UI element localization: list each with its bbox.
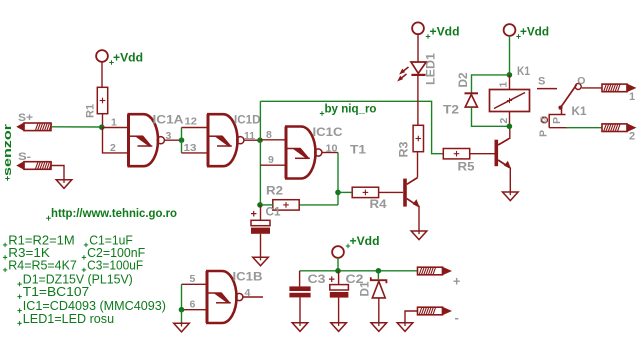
supply +Vdd (bottom rail) [332,234,379,258]
ground (plug -) [397,322,413,332]
label T1 [350,145,367,157]
wire T2 emitter [509,168,511,193]
svg-text:IC1C: IC1C [313,127,343,139]
svg-text:8: 8 [266,129,272,141]
svg-text:10: 10 [326,142,338,154]
wire rail to C3 [299,271,301,287]
svg-text:R5: R5 [458,162,476,174]
capacitor C1 [251,205,271,258]
wire node A to IC1A pin1 [103,127,129,129]
resistor R5 [443,149,475,174]
ground (D1) [371,322,387,332]
svg-text:@: @ [538,116,548,124]
wire IC1B pin4 [243,296,263,298]
capacitor C2 [329,271,364,323]
relay K1 contact P [538,106,588,137]
wire IC1B to ground [181,310,183,324]
relay K1 coil [490,66,531,126]
node C junction [257,137,263,143]
svg-text:6: 6 [190,298,196,310]
svg-text:+Vdd: +Vdd [113,51,143,65]
wire IC1D pin13 [182,152,209,154]
label url [46,208,177,220]
transistor T1 [403,178,419,207]
resistor R2 [266,186,299,211]
node J junction [376,268,382,274]
label component values [3,233,166,325]
svg-text:R1: R1 [85,104,97,118]
svg-text:S-: S- [18,151,31,163]
node D junction [335,190,341,196]
diode D2 [458,73,478,108]
label by niq_ro [320,102,377,116]
nand gate IC1A [110,114,197,166]
svg-text:P: P [538,130,550,137]
supply +Vdd (K1 branch) [504,24,549,39]
wire +Vdd drop [337,258,339,271]
resistor R3 [399,125,424,157]
svg-text:R2: R2 [266,186,283,198]
wire D2 to node G [472,107,510,126]
svg-text:2: 2 [498,118,510,124]
svg-text:LED1: LED1 [426,52,438,85]
svg-text:S: S [538,76,545,88]
node G junction [507,124,513,130]
svg-text:T1: T1 [350,145,367,157]
wire IC1B tie [181,284,183,309]
wire plug - to ground [405,311,418,323]
node F junction [507,72,513,78]
svg-text:12: 12 [185,115,198,127]
ground (C1) [253,256,269,266]
wire O to plug 1 [582,87,602,89]
svg-text:C3: C3 [308,274,326,286]
wire R1 to node A [102,114,104,128]
wire S- to ground [52,166,65,180]
svg-text:O: O [577,75,585,87]
svg-text:+: + [251,209,257,221]
wire IC1C pin8 [260,129,286,141]
wire IC1B pin5 [182,283,208,285]
wire S+ to node A [52,126,103,128]
wire R3 to LED1 [417,75,419,125]
svg-text:+Vdd: +Vdd [430,25,460,39]
wire node B tie [181,128,183,153]
nand gate IC1C [285,127,343,179]
svg-text:1: 1 [111,117,117,129]
wire node C riser [259,101,261,205]
svg-text:C3=100uF: C3=100uF [87,258,143,272]
svg-text:senzor: senzor [2,123,14,176]
svg-text:D2: D2 [458,73,470,88]
svg-text:2: 2 [629,131,635,143]
wire IC1D pin11 to node C [244,130,260,142]
nand gate IC1B [190,271,263,323]
svg-text:T2: T2 [443,105,459,117]
wire +Vdd to node F [509,36,511,75]
svg-text:LED1=LED rosu: LED1=LED rosu [23,312,114,326]
wire node F to D2 [472,75,510,93]
ground (C3) [292,322,308,332]
svg-text:5: 5 [190,273,196,285]
resistor R1 [85,87,108,118]
svg-text:R4=R5=4K7: R4=R5=4K7 [8,258,77,272]
wire T2 collector [509,126,511,139]
led LED1 [398,52,437,85]
label senzor [2,123,14,181]
node A junction [99,124,105,130]
svg-text:IC1B: IC1B [233,271,263,283]
wire R4 to T1 base [379,191,404,193]
svg-text:K1: K1 [572,106,588,118]
nand gate IC1D [207,114,261,166]
svg-text:D1: D1 [360,281,372,297]
svg-text:by niq_ro: by niq_ro [325,102,377,116]
wire IC1D pin12 [182,127,209,129]
supply +Vdd (R1 branch) [96,50,143,65]
wire top rail [260,101,443,153]
wire IC1C pin9 [260,154,286,166]
ground (C2) [331,322,347,332]
wire T1 emitter [418,206,420,231]
wire node A to IC1A pin2 [103,128,129,153]
wire P to plug 2 [549,127,602,129]
svg-text:+: + [453,275,460,289]
connector S+ [18,112,52,131]
capacitor C3 [289,274,325,323]
connector S- [18,151,52,169]
svg-text:+Vdd: +Vdd [520,25,549,39]
relay K1 armature [558,85,576,110]
svg-text:+Vdd: +Vdd [350,234,380,248]
transistor T2 [443,105,510,169]
wire IC1C pin10 [322,142,338,154]
svg-text:1: 1 [498,82,510,88]
node I junction [335,268,341,274]
relay K1 contact S lead [537,76,557,89]
connector plug + [418,267,461,288]
wire bottom rail [300,270,418,272]
ground (S-) [56,179,72,189]
connector plug 2 [602,124,635,143]
relay K1 contact O [575,75,585,90]
svg-text:IC1D: IC1D [234,115,261,127]
connector plug 1 [602,84,635,103]
wire R5 to T2 base [470,153,495,155]
connector plug - [418,307,459,325]
svg-text:S+: S+ [18,112,33,124]
ground (T1) [411,230,427,240]
wire IC1A pin3 to node B [165,139,182,141]
wire pin10 to node D [337,153,339,205]
wire node D to R2 [299,204,339,206]
svg-text:K1: K1 [517,66,531,78]
supply +Vdd (LED branch) [412,22,459,38]
node H junction [179,307,185,313]
wire rail to D1 [377,271,379,279]
zener diode D1 [360,277,387,323]
svg-text:11: 11 [244,130,255,142]
node E junction [257,202,263,208]
svg-text:9: 9 [268,154,274,166]
svg-text:IC1A: IC1A [153,114,184,126]
resistor R4 [352,187,387,211]
wire T1 collector [417,152,419,178]
svg-text:T1=BC107: T1=BC107 [23,285,89,299]
svg-text:P: P [551,117,563,124]
svg-text:-: - [455,310,459,325]
svg-text:1: 1 [629,91,635,103]
wire R2 to node E [260,204,274,206]
wire +Vdd to LED1 [417,34,419,62]
ground (T2) [503,191,519,201]
ground (IC1B) [174,322,190,332]
svg-text:2: 2 [110,142,116,154]
label C1 [266,207,282,219]
node B junction [179,137,185,143]
wire node D to R4 [338,191,352,193]
svg-text:R3: R3 [399,142,411,158]
wire +Vdd to R1 [101,62,103,88]
svg-text:C1: C1 [266,207,282,219]
svg-text:http://www.tehnic.go.ro: http://www.tehnic.go.ro [51,208,177,220]
wire IC1B pin6 [182,309,208,311]
svg-text:R4: R4 [370,199,388,211]
